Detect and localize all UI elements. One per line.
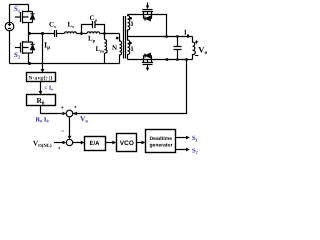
svg-text:+: + [61, 106, 65, 112]
svg-text:E/A: E/A [90, 140, 101, 147]
svg-text:−: − [61, 129, 65, 135]
svg-text:Ls: Ls [68, 21, 75, 30]
svg-text:Cp: Cp [90, 14, 98, 23]
svg-text:N: N [112, 44, 117, 52]
svg-text:VCO: VCO [120, 140, 134, 147]
svg-text:Deadtime: Deadtime [150, 136, 173, 142]
svg-text:VO(NL): VO(NL) [33, 140, 52, 150]
svg-text:Ip: Ip [44, 41, 50, 52]
svg-text:R0 I0: R0 I0 [36, 117, 49, 124]
svg-text:N·avg{|·|}: N·avg{|·|} [29, 75, 53, 81]
svg-text:Vo: Vo [80, 114, 88, 125]
svg-text:1: 1 [130, 45, 134, 53]
svg-text:= Io: = Io [44, 86, 53, 92]
svg-text:1: 1 [130, 20, 134, 28]
svg-text:S1: S1 [192, 135, 198, 142]
svg-text:Lm: Lm [96, 45, 105, 54]
svg-text:+: + [58, 146, 62, 152]
svg-text:Lp: Lp [88, 35, 96, 44]
svg-text:S2: S2 [192, 147, 198, 154]
svg-text:S2: S2 [14, 51, 21, 60]
svg-text:R0: R0 [37, 96, 45, 107]
svg-text:Vo: Vo [198, 44, 207, 56]
svg-text:+: + [74, 105, 78, 111]
svg-text:generator: generator [150, 142, 173, 148]
svg-text:S1: S1 [14, 5, 21, 14]
svg-text:Cs: Cs [49, 21, 56, 30]
svg-text:Io: Io [184, 29, 190, 38]
